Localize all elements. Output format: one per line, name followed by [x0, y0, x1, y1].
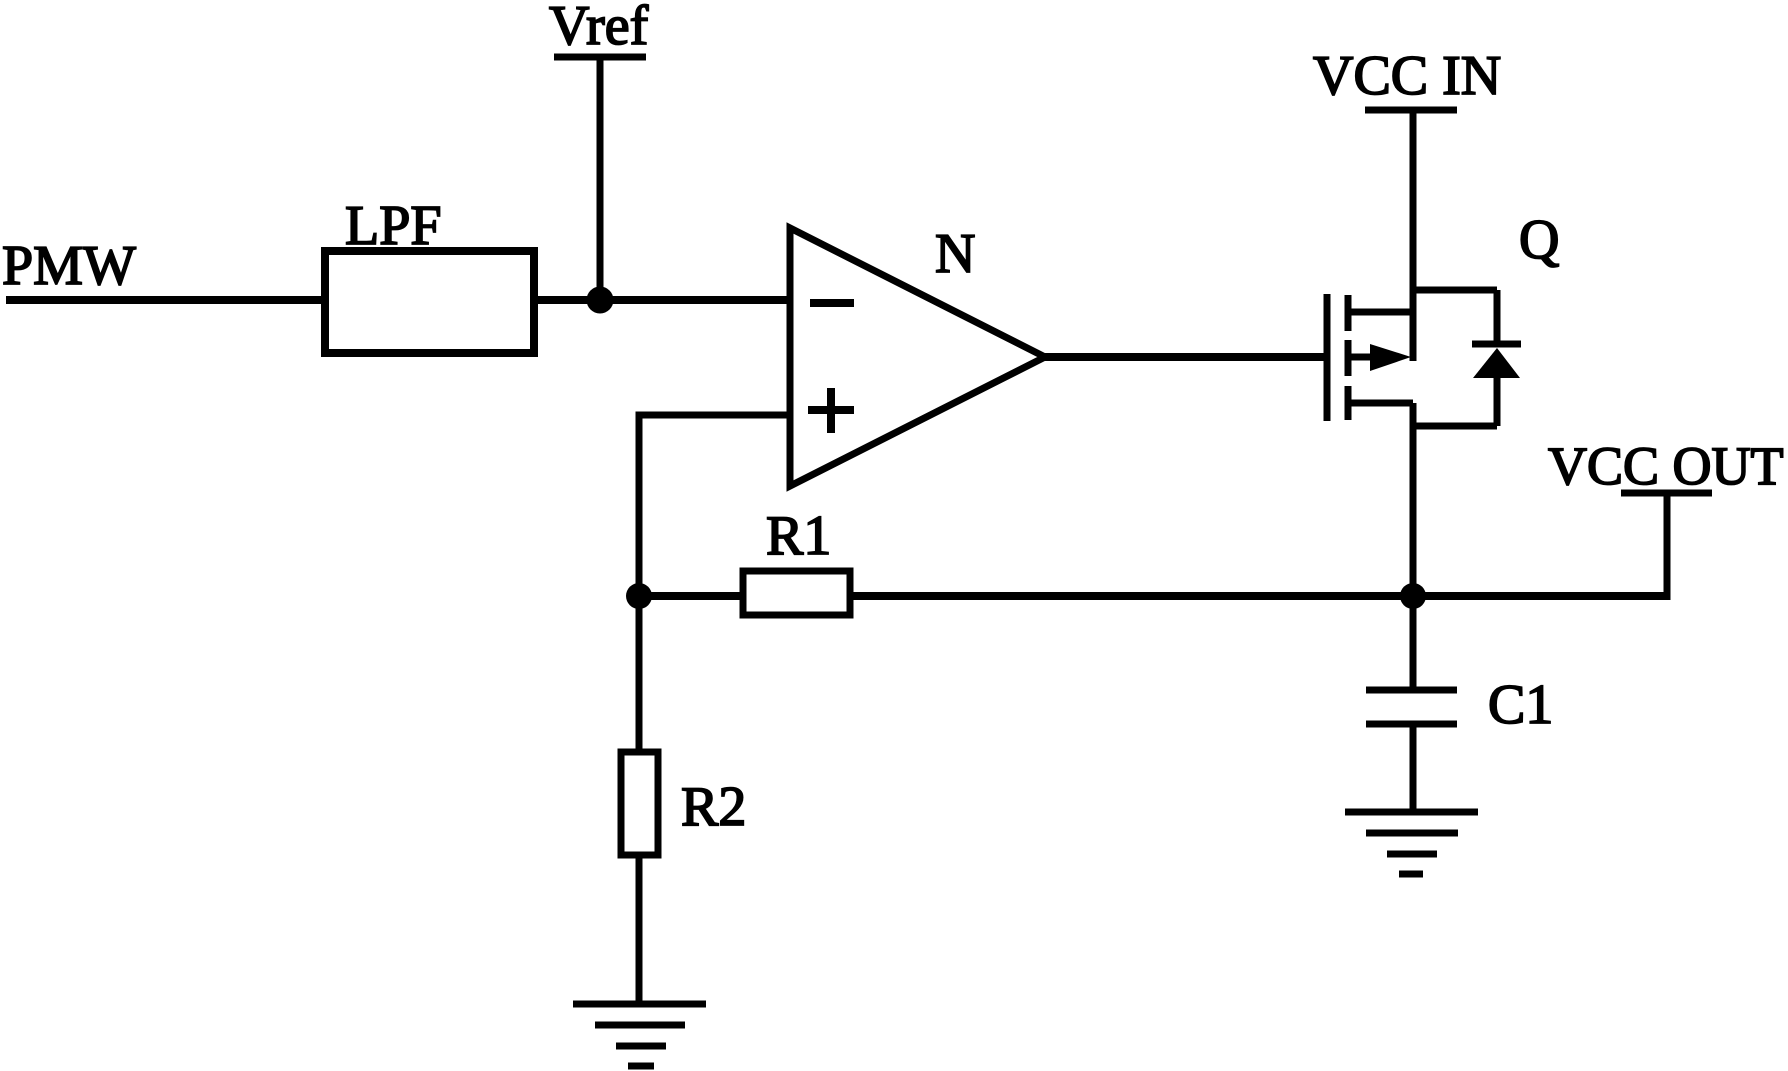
wire Vref to node [597, 57, 604, 300]
wire C1 to ground [1410, 724, 1417, 812]
capacitor C1 top plate [1366, 687, 1457, 694]
wire VCC OUT drop [1664, 493, 1671, 600]
svg-text:VCC OUT: VCC OUT [1548, 436, 1784, 496]
svg-text:C1: C1 [1488, 674, 1553, 736]
transistor Q channel segment top [1345, 295, 1352, 331]
transistor Q source tap [1348, 400, 1413, 407]
wire source down through output node to C1 [1410, 403, 1417, 692]
ground under C1 bar1 [1345, 809, 1478, 816]
resistor R1 [743, 571, 850, 615]
svg-text:R1: R1 [766, 505, 831, 567]
junction node at source/R1/C1/VCC OUT [1400, 583, 1426, 609]
block LPF [325, 251, 534, 353]
diode branch lower vertical [1494, 378, 1501, 426]
transistor Q gate bar [1324, 294, 1331, 421]
ground under R2 bar2 [595, 1022, 685, 1029]
op-amp minus sign [810, 299, 854, 307]
transistor Q body tap with arrow [1348, 354, 1376, 361]
diode D cathode bar [1472, 341, 1521, 348]
supply VCC OUT bar [1621, 490, 1712, 497]
resistor R2 [621, 752, 658, 855]
transistor Q drain tap [1348, 309, 1413, 316]
junction node at non-inverting/R1/R2 [626, 583, 652, 609]
transistor Q channel segment middle [1345, 340, 1352, 376]
wire R2 to ground [636, 855, 643, 1004]
ground under C1 bar2 [1366, 830, 1458, 837]
capacitor C1 bottom plate [1366, 721, 1457, 728]
wire node to R2 [636, 596, 643, 752]
ground under R2 bar4 [628, 1063, 654, 1070]
svg-text:Vref: Vref [549, 0, 649, 57]
wire op-amp non-inverting input [639, 415, 790, 596]
diode D triangle [1473, 348, 1520, 378]
svg-text:VCC IN: VCC IN [1313, 45, 1501, 107]
svg-text:R2: R2 [681, 776, 746, 838]
diode branch bottom wire [1413, 423, 1497, 430]
wire feedback horizontal [639, 592, 1413, 600]
svg-text:PMW: PMW [2, 235, 136, 297]
wire PMW input [6, 296, 325, 304]
diode branch upper vertical [1494, 290, 1501, 344]
ground under R2 bar3 [616, 1043, 666, 1050]
diode branch top wire [1413, 287, 1497, 294]
wire LPF output to op-amp inverting input [534, 296, 790, 304]
wire op-amp output to gate [1045, 353, 1324, 361]
op-amp plus sign [808, 406, 854, 414]
supply Vref bar [554, 54, 646, 61]
ground under C1 bar3 [1387, 851, 1437, 858]
op-amp N body [790, 228, 1045, 486]
junction node at Vref/LPF/op-amp [587, 287, 614, 314]
svg-text:Q: Q [1519, 209, 1559, 271]
supply VCC IN bar [1365, 107, 1457, 114]
svg-text:N: N [935, 223, 975, 285]
ground under C1 bar4 [1399, 871, 1423, 878]
wire VCC OUT horizontal [1413, 592, 1670, 600]
transistor Q channel segment bottom [1345, 386, 1352, 420]
wire VCC IN to drain [1410, 110, 1417, 361]
svg-text:LPF: LPF [345, 195, 442, 257]
ground under R2 bar1 [573, 1001, 706, 1008]
